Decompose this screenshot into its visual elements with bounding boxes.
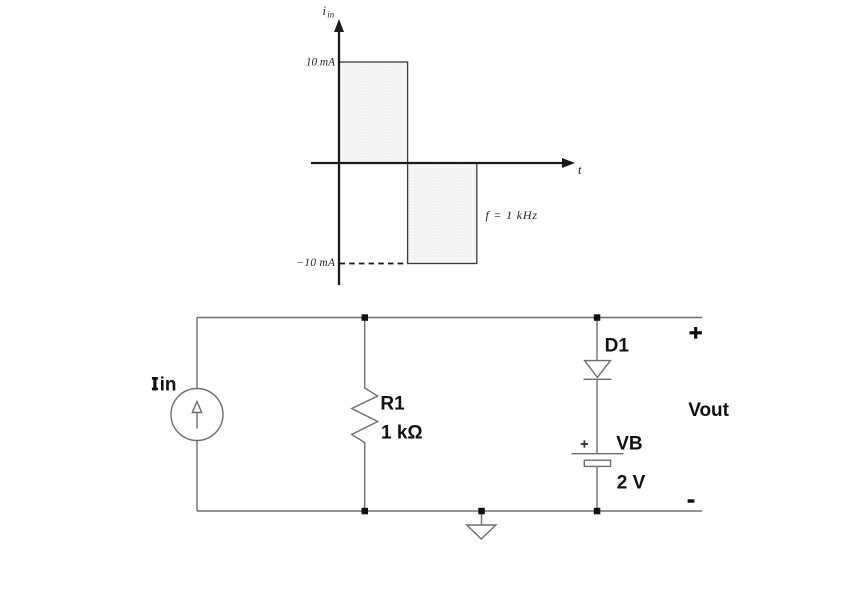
svg-text:D1: D1 (605, 335, 630, 356)
svg-text:R1: R1 (380, 393, 405, 414)
svg-text:2 V: 2 V (617, 473, 646, 494)
svg-text:in: in (160, 374, 177, 395)
svg-text:10 mA: 10 mA (306, 57, 335, 69)
svg-text:VB: VB (616, 434, 642, 455)
svg-text:i: i (323, 3, 327, 18)
svg-text:1 kΩ: 1 kΩ (381, 422, 423, 443)
svg-text:in: in (327, 10, 335, 20)
svg-text:Vout: Vout (688, 400, 729, 421)
svg-text:−10 mA: −10 mA (296, 257, 335, 269)
svg-text:t: t (578, 163, 582, 177)
svg-text:f = 1 kHz: f = 1 kHz (486, 208, 538, 222)
